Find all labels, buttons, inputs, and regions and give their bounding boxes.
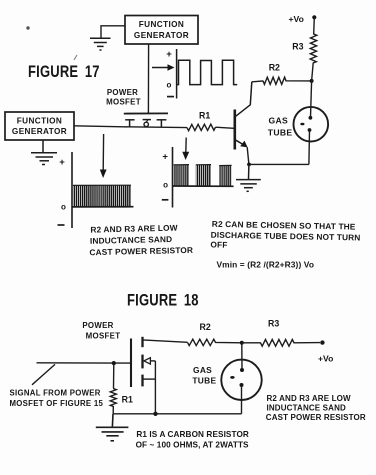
svg-text:GENERATOR: GENERATOR — [134, 31, 189, 40]
svg-text:R1 IS A CARBON RESISTOR: R1 IS A CARBON RESISTOR — [136, 430, 249, 439]
resistor R2 (fig 17) — [252, 77, 311, 84]
power mosfet Q1 symbol (fig 17) — [124, 113, 168, 127]
wire FG1 to MOSFET gate — [147, 44, 149, 113]
source node junction — [153, 412, 157, 416]
caption: R2 can be chosen (fig 17) — [210, 219, 360, 252]
svg-text:+: + — [59, 157, 65, 168]
svg-text:Vmin = (R2 /(R2+R3)) Vo: Vmin = (R2 /(R2+R3)) Vo — [217, 259, 315, 269]
square wave pulses — [177, 60, 238, 84]
svg-text:R1: R1 — [122, 394, 133, 404]
ground under FG2 — [31, 140, 57, 165]
resistor R1 (fig 17) — [187, 124, 216, 131]
svg-text:GENERATOR: GENERATOR — [12, 127, 67, 136]
wire FG2 to mosfet / source-drain rail — [74, 126, 187, 128]
ground (top left, FG1) — [90, 38, 111, 50]
svg-text:TUBE: TUBE — [192, 375, 216, 385]
svg-text:+: + — [162, 151, 168, 162]
svg-text:OFF: OFF — [210, 239, 227, 249]
svg-text:R2: R2 — [200, 322, 211, 332]
gate node junction (fig 18) — [112, 361, 116, 365]
top rail: drain to R2 (fig 18) — [143, 340, 188, 342]
drive waveform axis (top) — [166, 49, 176, 99]
svg-text:o: o — [61, 202, 66, 211]
resistor R3 (fig 17) — [310, 17, 317, 81]
svg-text:R3: R3 — [268, 318, 279, 328]
left burst waveform axis — [58, 152, 73, 228]
bottom rail (fig 18) — [113, 413, 241, 415]
svg-text:TUBE: TUBE — [268, 127, 293, 137]
svg-text:+: + — [166, 49, 172, 60]
svg-text:R3: R3 — [292, 41, 303, 51]
svg-text:MOSFET OF FIGURE 15: MOSFET OF FIGURE 15 — [10, 399, 104, 408]
svg-text:R2 AND R3 ARE LOW: R2 AND R3 ARE LOW — [267, 394, 351, 403]
resistor R3 (fig 18) — [242, 339, 320, 346]
caption: R1 is a carbon resistor — [136, 430, 249, 450]
arrow down to left burst waveform — [100, 134, 107, 178]
node: R2/R3/gas tube junction — [240, 341, 244, 345]
+Vo terminal (fig 18) — [318, 340, 333, 363]
gas tube V1 (fig 17) — [294, 107, 329, 142]
function generator box FG2 (left) — [5, 112, 74, 140]
left burst block — [72, 185, 134, 207]
wire R1 to base — [216, 127, 234, 128]
power mosfet Q3 symbol (fig 18) — [131, 337, 155, 414]
wire junction to gas tube (fig 18) — [241, 343, 243, 370]
svg-text:MOSFET: MOSFET — [86, 331, 121, 340]
caption: R2 and R3 are low inductance (fig 17) — [89, 222, 193, 257]
svg-text:+Vo: +Vo — [318, 353, 333, 363]
svg-text:FIGURE 17: FIGURE 17 — [28, 62, 100, 81]
resistor R2 (fig 18) — [188, 339, 242, 345]
+Vo terminal (fig 17) — [289, 14, 317, 24]
svg-text:POWER: POWER — [82, 321, 113, 330]
svg-text:GAS: GAS — [193, 365, 212, 375]
svg-text:OF ~ 100 OHMS, AT 2WATTS: OF ~ 100 OHMS, AT 2WATTS — [136, 441, 249, 450]
svg-text:FIGURE 18: FIGURE 18 — [127, 291, 199, 310]
svg-text:R1: R1 — [199, 111, 210, 121]
svg-text:MOSFET: MOSFET — [106, 97, 141, 106]
wire emitter node to gas tube bottom — [249, 163, 309, 165]
node: R2/R3 junction — [310, 79, 314, 83]
gas tube V2 (fig 18) — [221, 360, 261, 400]
caption: R2 and R3 are low inductance (fig 18) — [266, 394, 366, 422]
signal input wire — [37, 362, 131, 364]
svg-text:FUNCTION: FUNCTION — [17, 116, 63, 125]
svg-text:GAS: GAS — [269, 115, 289, 125]
emitter node junction — [247, 163, 251, 167]
svg-text:INDUCTANCE SAND: INDUCTANCE SAND — [267, 404, 347, 413]
svg-text:FUNCTION: FUNCTION — [139, 20, 185, 29]
wire gas tube bottom to rail (fig 18) — [241, 385, 243, 414]
svg-text:+Vo: +Vo — [289, 14, 304, 24]
svg-text:POWER: POWER — [107, 88, 138, 97]
svg-text:R2: R2 — [269, 63, 280, 73]
scan speck top-left — [26, 26, 29, 29]
wire junction to gas tube top — [311, 81, 312, 118]
middle burst blocks — [173, 165, 234, 187]
svg-text:CAST POWER RESISTOR: CAST POWER RESISTOR — [266, 413, 366, 422]
svg-text:R2 AND R3 ARE LOW: R2 AND R3 ARE LOW — [90, 223, 177, 235]
function generator box FG1 (top) — [125, 16, 198, 45]
middle burst waveform axis — [162, 147, 173, 208]
ground at emitter (fig 17) — [236, 164, 261, 191]
wire gas tube bottom down — [308, 130, 311, 164]
svg-text:SIGNAL FROM POWER: SIGNAL FROM POWER — [10, 388, 101, 397]
svg-text:INDUCTANCE SAND: INDUCTANCE SAND — [90, 234, 173, 246]
arrow from FG1 into waveform — [152, 64, 175, 71]
transistor Q2 (fig 17) — [235, 82, 252, 165]
scan tick above title — [74, 55, 77, 60]
wire FG1 to ground — [101, 26, 125, 38]
resistor R1 (fig 18) — [110, 363, 116, 414]
svg-text:o: o — [163, 181, 168, 190]
ground (fig 18) — [96, 414, 129, 441]
signal source slash — [32, 364, 55, 384]
svg-text:o: o — [167, 81, 172, 90]
arrow down to middle burst waveform — [182, 138, 189, 161]
